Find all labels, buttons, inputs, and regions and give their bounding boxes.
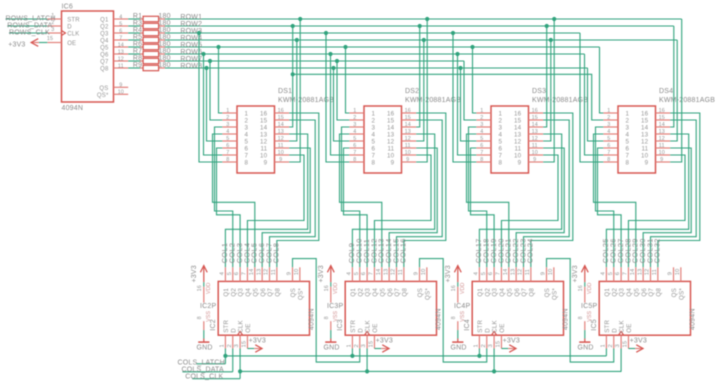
svg-text:16: 16 — [532, 108, 538, 114]
svg-text:13: 13 — [387, 131, 395, 138]
svg-text:1: 1 — [601, 344, 607, 347]
svg-text:6: 6 — [234, 272, 240, 275]
svg-text:DS4: DS4 — [659, 88, 673, 95]
svg-text:14: 14 — [260, 124, 268, 131]
svg-text:QS*: QS* — [97, 93, 109, 99]
svg-text:9: 9 — [414, 272, 420, 275]
svg-text:1: 1 — [626, 110, 630, 117]
svg-text:Q3: Q3 — [492, 288, 499, 297]
wire DS1 pin 15 to COL7 — [270, 120, 316, 267]
wire DS3 pin 13 to COL17 — [479, 134, 561, 267]
svg-text:OE: OE — [245, 323, 252, 332]
wire COLS_DATA to IC2 D — [182, 371, 232, 373]
wire +3V3 to IC3P VDD pin 16 — [330, 282, 332, 287]
wire COLS_LATCH bus — [196, 354, 606, 364]
svg-text:15: 15 — [514, 117, 522, 124]
svg-text:9: 9 — [406, 157, 409, 163]
wire DS4 pin 11 to COL30 — [643, 148, 691, 267]
svg-text:12: 12 — [260, 138, 268, 145]
svg-text:9: 9 — [660, 157, 663, 163]
svg-text:Q5: Q5 — [633, 288, 640, 297]
svg-text:4094N: 4094N — [62, 105, 84, 112]
resistor R4 180 — [128, 27, 170, 36]
svg-text:D: D — [484, 328, 491, 333]
wire ROW5 to DS3 pin 1 — [473, 47, 477, 113]
wire ROW8 to DS1 pin 5 — [207, 68, 223, 141]
svg-text:16: 16 — [641, 110, 649, 117]
svg-text:IC5P: IC5P — [581, 303, 597, 310]
svg-text:6: 6 — [119, 28, 122, 34]
svg-text:13: 13 — [641, 131, 649, 138]
wire IC3 QS to IC4 D cascade — [420, 259, 487, 363]
svg-text:13: 13 — [514, 131, 522, 138]
wire DS4 pin 16 to COL32 — [658, 113, 700, 267]
svg-text:Q4: Q4 — [100, 39, 109, 45]
wire IC2P VSS to GND — [203, 330, 205, 338]
svg-text:Q1: Q1 — [604, 288, 611, 297]
svg-text:COL24: COL24 — [526, 238, 535, 263]
svg-text:14: 14 — [659, 122, 665, 128]
svg-text:1: 1 — [372, 110, 376, 117]
svg-text:D: D — [611, 328, 618, 333]
svg-text:QS*: QS* — [551, 288, 558, 300]
svg-text:Q8: Q8 — [655, 288, 662, 297]
svg-text:Q2: Q2 — [357, 288, 364, 297]
svg-text:5: 5 — [226, 136, 229, 142]
wire DS3 pin 15 to COL23 — [524, 120, 570, 267]
svg-text:9: 9 — [391, 159, 395, 166]
svg-text:7: 7 — [499, 152, 503, 159]
svg-text:10: 10 — [421, 269, 427, 276]
svg-text:16: 16 — [260, 110, 268, 117]
svg-text:5: 5 — [245, 138, 249, 145]
svg-text:R6: R6 — [133, 41, 142, 48]
svg-text:ROW2: ROW2 — [180, 21, 202, 28]
wire ROW4 bus — [165, 39, 677, 41]
svg-text:IC6: IC6 — [62, 4, 74, 11]
wire DS3 pin 3 to COL18 — [469, 127, 487, 267]
svg-text:STR: STR — [67, 18, 80, 24]
svg-text:13: 13 — [659, 129, 665, 135]
svg-text:ROWS_DATA: ROWS_DATA — [7, 23, 52, 30]
power +3V3 symbol at IC3P VDD — [318, 265, 334, 282]
svg-text:15: 15 — [369, 341, 375, 348]
wire IC4 CLK to COLS_CLK — [493, 349, 495, 372]
ground GND at IC2P — [197, 339, 213, 352]
svg-text:14: 14 — [630, 268, 636, 275]
svg-text:6: 6 — [353, 143, 356, 149]
wire ROW3 to DS4 pin 8 — [580, 33, 603, 162]
wire COLS_CLK bus — [192, 369, 621, 378]
svg-text:3: 3 — [488, 344, 494, 347]
svg-text:1: 1 — [347, 344, 353, 347]
svg-text:OE: OE — [499, 323, 506, 332]
svg-text:5: 5 — [354, 272, 360, 275]
svg-text:Q5: Q5 — [379, 288, 386, 297]
svg-text:12: 12 — [118, 56, 124, 62]
svg-text:+3V3: +3V3 — [8, 41, 25, 48]
svg-text:OE: OE — [626, 323, 633, 332]
svg-text:11: 11 — [271, 269, 277, 275]
svg-text:11: 11 — [398, 269, 404, 275]
IC3 bottom pin stubs STR D CLK OE — [347, 335, 375, 348]
wire ROW2 wrap to DS4 pin 14 — [670, 26, 674, 127]
wire IC5P VSS to GND — [584, 330, 586, 338]
svg-text:R9: R9 — [133, 62, 142, 69]
wire ROWS_DATA to IC6 D — [7, 25, 47, 27]
svg-text:4: 4 — [499, 131, 503, 138]
svg-text:15: 15 — [387, 117, 395, 124]
svg-text:15: 15 — [496, 341, 502, 348]
IC2 top pin stubs Q1-Q8 QS QS* — [220, 267, 300, 281]
svg-text:12: 12 — [391, 269, 397, 276]
svg-text:D: D — [230, 328, 237, 333]
svg-text:6: 6 — [499, 145, 503, 152]
ground GND at IC4P — [451, 339, 467, 352]
wire ROW3 bus — [165, 32, 580, 34]
svg-text:2: 2 — [245, 117, 249, 124]
svg-text:4: 4 — [245, 131, 249, 138]
svg-text:Q6: Q6 — [641, 288, 648, 297]
svg-text:CLK: CLK — [238, 319, 245, 332]
svg-text:15: 15 — [260, 117, 268, 124]
wire ROWS_LATCH to IC6 STR — [6, 18, 48, 20]
svg-text:+3V3: +3V3 — [445, 265, 452, 282]
svg-text:DS3: DS3 — [532, 88, 546, 95]
svg-text:4: 4 — [119, 14, 122, 20]
svg-text:5: 5 — [372, 138, 376, 145]
svg-text:2: 2 — [226, 115, 229, 121]
wire IC2 QS to IC3 D cascade — [293, 259, 360, 363]
svg-text:5: 5 — [480, 136, 483, 142]
svg-text:11: 11 — [514, 145, 521, 152]
svg-text:Q8: Q8 — [274, 288, 281, 297]
power +3V3 symbol at IC2P VDD — [191, 265, 207, 282]
power +3V3 arrow at IC3 OE — [374, 337, 393, 352]
svg-text:15: 15 — [278, 115, 284, 121]
wire +3V3 to IC2P VDD pin 16 — [203, 282, 205, 287]
svg-text:Q1: Q1 — [223, 288, 230, 297]
wire ROW6 to DS2 pin 7 — [331, 54, 350, 155]
IC IC3 (4094N column driver) — [345, 281, 442, 335]
svg-text:2: 2 — [227, 344, 233, 347]
svg-text:13: 13 — [405, 129, 411, 135]
svg-text:Q4: Q4 — [626, 288, 633, 297]
svg-text:+3V3: +3V3 — [376, 337, 393, 344]
wire ROW6 to DS1 pin 7 — [204, 54, 223, 155]
wire ROW1 bus — [165, 18, 682, 20]
svg-text:+3V3: +3V3 — [630, 337, 647, 344]
svg-text:R8: R8 — [133, 55, 142, 62]
wire DS1 pin 6 to COL3 — [217, 148, 241, 267]
svg-text:4: 4 — [480, 129, 483, 135]
wire DS2 pin 10 to COL12 — [374, 155, 431, 267]
svg-text:14: 14 — [514, 124, 522, 131]
svg-text:14: 14 — [278, 122, 284, 128]
svg-text:D: D — [67, 25, 72, 31]
svg-text:ROW1: ROW1 — [180, 14, 202, 21]
svg-text:9: 9 — [264, 159, 268, 166]
svg-text:10: 10 — [387, 152, 395, 159]
svg-text:1: 1 — [226, 108, 229, 114]
svg-text:Q2: Q2 — [484, 288, 491, 297]
svg-text:4094N: 4094N — [436, 308, 443, 330]
wire IC5 CLK to COLS_CLK — [620, 349, 622, 372]
svg-text:Q7: Q7 — [648, 288, 655, 297]
svg-text:8: 8 — [197, 316, 203, 319]
svg-text:2: 2 — [353, 115, 356, 121]
svg-text:R7: R7 — [133, 48, 142, 55]
svg-text:5: 5 — [227, 272, 233, 275]
svg-text:5: 5 — [626, 138, 630, 145]
wire DS3 pin 4 to COL21 — [467, 134, 509, 267]
svg-text:Q6: Q6 — [100, 53, 109, 59]
svg-text:5: 5 — [607, 136, 610, 142]
svg-text:7: 7 — [242, 272, 248, 275]
svg-text:15: 15 — [623, 341, 629, 348]
svg-text:11: 11 — [118, 63, 124, 69]
wire DS2 pin 6 to COL11 — [344, 148, 368, 267]
svg-text:Q2: Q2 — [611, 288, 618, 297]
svg-text:R4: R4 — [133, 27, 142, 34]
wire DS3 pin 10 to COL20 — [501, 155, 558, 267]
svg-text:Q7: Q7 — [267, 288, 274, 297]
svg-text:9: 9 — [668, 272, 674, 275]
svg-text:GND: GND — [451, 345, 467, 352]
svg-text:12: 12 — [532, 136, 538, 142]
svg-text:14: 14 — [641, 124, 649, 131]
svg-text:8: 8 — [451, 316, 457, 319]
svg-text:OE: OE — [67, 41, 76, 47]
wire IC2 D to COLS_DATA — [232, 349, 234, 372]
power gate IC2P (VDD/VSS pins) — [197, 282, 217, 330]
svg-text:COL32: COL32 — [653, 238, 662, 263]
svg-text:4: 4 — [372, 131, 376, 138]
svg-text:16: 16 — [387, 110, 395, 117]
power gate IC4P (VDD/VSS pins) — [451, 282, 471, 330]
svg-text:STR: STR — [223, 319, 230, 332]
resistor R3 180 — [128, 20, 170, 29]
wire IC4 QS to IC5 D cascade — [547, 259, 614, 363]
resistor R8 180 — [128, 55, 170, 64]
svg-text:12: 12 — [514, 138, 522, 145]
wire IC5 STR to COLS_LATCH — [605, 349, 607, 356]
wire DS2 pin 16 to COL16 — [404, 113, 446, 267]
power +3V3 arrow at IC2 OE — [247, 337, 266, 352]
svg-text:4: 4 — [353, 129, 356, 135]
svg-text:6: 6 — [626, 145, 630, 152]
svg-text:COL16: COL16 — [399, 238, 408, 263]
IC5 top pin stubs Q1-Q8 QS QS* — [601, 267, 681, 281]
wire DS3 pin 11 to COL22 — [516, 148, 564, 267]
svg-text:COLS_DATA: COLS_DATA — [182, 366, 225, 373]
svg-text:15: 15 — [242, 341, 248, 348]
resistor R5 180 — [128, 34, 170, 43]
wire ROW7 to DS2 pin 2 — [337, 61, 349, 120]
svg-text:3: 3 — [615, 344, 621, 347]
svg-text:GND: GND — [197, 345, 213, 352]
svg-text:7: 7 — [353, 150, 356, 156]
svg-text:16: 16 — [278, 108, 284, 114]
svg-text:11: 11 — [525, 269, 531, 275]
wire DS1 pin 16 to COL8 — [277, 113, 319, 267]
svg-text:6: 6 — [245, 145, 249, 152]
junction dots on ROW bus taps — [197, 17, 556, 77]
svg-text:Q1: Q1 — [350, 288, 357, 297]
svg-text:R3: R3 — [133, 20, 142, 27]
power +3V3 arrow at IC4 OE — [501, 337, 520, 352]
wire DS2 pin 13 to COL9 — [352, 134, 434, 267]
wire DS4 pin 13 to COL25 — [606, 134, 688, 267]
IC6 right pin stubs Q1-Q8, QS, QS* — [114, 14, 129, 95]
IC2 bottom pin stubs STR D CLK OE — [220, 335, 248, 348]
svg-text:DS2: DS2 — [405, 88, 419, 95]
svg-text:16: 16 — [405, 108, 411, 114]
svg-text:R5: R5 — [133, 34, 142, 41]
IC IC5 (4094N column driver) — [599, 281, 696, 335]
wire DS4 pin 15 to COL31 — [651, 120, 697, 267]
svg-text:IC5: IC5 — [591, 319, 598, 331]
wire ROW7 bus — [165, 60, 464, 62]
svg-text:10: 10 — [532, 150, 538, 156]
svg-text:Q4: Q4 — [499, 288, 506, 297]
wire ROW4 to DS3 pin 12 — [543, 40, 551, 141]
svg-text:13: 13 — [260, 131, 268, 138]
svg-text:Q6: Q6 — [387, 288, 394, 297]
svg-text:7: 7 — [226, 150, 229, 156]
svg-text:12: 12 — [387, 138, 395, 145]
svg-text:1: 1 — [474, 344, 480, 347]
wire IC2 CLK to COLS_CLK — [239, 349, 241, 372]
wire ROW2 to DS2 pin 14 — [416, 26, 420, 127]
svg-text:7: 7 — [372, 152, 376, 159]
display DS4 KWM-20881AGB — [603, 88, 715, 173]
svg-text:10: 10 — [514, 152, 522, 159]
svg-text:QS: QS — [544, 288, 551, 297]
svg-text:9: 9 — [541, 272, 547, 275]
svg-text:+3V3: +3V3 — [318, 265, 325, 282]
svg-text:8: 8 — [480, 157, 483, 163]
svg-text:VDD: VDD — [333, 282, 339, 294]
svg-text:8: 8 — [226, 157, 229, 163]
svg-text:9: 9 — [287, 272, 293, 275]
svg-text:+3V3: +3V3 — [249, 337, 266, 344]
ground GND at IC3P — [324, 339, 340, 352]
svg-text:4: 4 — [626, 131, 630, 138]
wire ROW7 to DS3 pin 2 — [464, 61, 476, 120]
svg-text:15: 15 — [405, 115, 411, 121]
svg-text:10: 10 — [118, 90, 124, 96]
svg-text:7: 7 — [480, 150, 483, 156]
wire ROW4 to DS1 pin 12 — [289, 40, 297, 141]
wire ROW8 to DS3 pin 5 — [461, 68, 477, 141]
IC4 bottom pin stubs STR D CLK OE — [474, 335, 502, 348]
svg-text:6: 6 — [372, 145, 376, 152]
svg-text:R1: R1 — [133, 13, 142, 20]
display DS2 KWM-20881AGB — [349, 88, 461, 173]
wire ROW5 to DS4 pin 1 — [600, 47, 604, 113]
svg-text:6: 6 — [615, 272, 621, 275]
svg-text:7: 7 — [496, 272, 502, 275]
svg-text:2: 2 — [607, 115, 610, 121]
svg-text:5: 5 — [608, 272, 614, 275]
svg-text:14: 14 — [118, 42, 124, 48]
wire +3V3 to IC4P VDD pin 16 — [457, 282, 459, 287]
svg-text:IC4: IC4 — [464, 319, 471, 331]
wire DS4 pin 6 to COL27 — [598, 148, 622, 267]
svg-text:Q5: Q5 — [506, 288, 513, 297]
svg-text:10: 10 — [659, 150, 665, 156]
wire ROW3 to DS3 pin 8 — [453, 33, 476, 162]
wire ROW4 wrap to DS4 pin 12 — [670, 40, 677, 141]
svg-text:6: 6 — [480, 143, 483, 149]
svg-text:12: 12 — [278, 136, 284, 142]
svg-text:11: 11 — [659, 143, 665, 149]
svg-text:12: 12 — [405, 136, 411, 142]
IC5 bottom pin stubs STR D CLK OE — [601, 335, 629, 348]
svg-text:12: 12 — [518, 269, 524, 276]
wire ROW5 to DS1 pin 1 — [219, 47, 223, 113]
svg-text:4: 4 — [226, 129, 229, 135]
resistor R9 180 — [128, 62, 170, 71]
svg-text:9: 9 — [645, 159, 649, 166]
svg-text:14: 14 — [249, 268, 255, 275]
wire IC3 CLK to COLS_CLK — [366, 349, 368, 372]
svg-text:Q3: Q3 — [100, 32, 109, 38]
svg-text:8: 8 — [353, 157, 356, 163]
svg-text:8: 8 — [607, 157, 610, 163]
wire ROW1 wrap to DS4 pin 9 — [670, 19, 682, 162]
wire DS1 pin 3 to COL2 — [215, 127, 233, 267]
svg-text:4094N: 4094N — [563, 308, 570, 330]
svg-text:1: 1 — [480, 108, 483, 114]
svg-text:STR: STR — [477, 319, 484, 332]
wire DS2 pin 4 to COL13 — [340, 134, 382, 267]
wire ROW1 to DS3 pin 9 — [543, 19, 554, 162]
svg-text:8: 8 — [372, 159, 376, 166]
svg-text:9: 9 — [279, 157, 282, 163]
svg-text:6: 6 — [226, 143, 229, 149]
svg-text:1: 1 — [353, 108, 356, 114]
wire DS4 pin 3 to COL26 — [596, 127, 614, 267]
svg-text:10: 10 — [278, 150, 284, 156]
svg-text:OE: OE — [372, 323, 379, 332]
wire ROW8 to DS2 pin 5 — [334, 68, 350, 141]
svg-text:COLS_LATCH: COLS_LATCH — [178, 359, 225, 366]
svg-text:Q8: Q8 — [528, 288, 535, 297]
svg-text:Q4: Q4 — [372, 288, 379, 297]
svg-text:7: 7 — [607, 150, 610, 156]
ground GND at IC5P — [578, 339, 594, 352]
svg-text:2: 2 — [480, 115, 483, 121]
display DS1 KWM-20881AGB — [222, 88, 334, 173]
svg-text:5: 5 — [353, 136, 356, 142]
svg-text:IC4P: IC4P — [454, 303, 470, 310]
svg-text:13: 13 — [256, 269, 262, 276]
power +3V3 arrow at IC5 OE — [628, 337, 647, 352]
svg-text:15: 15 — [47, 36, 53, 42]
svg-text:Q5: Q5 — [252, 288, 259, 297]
wire DS3 pin 16 to COL24 — [531, 113, 573, 267]
svg-text:5: 5 — [499, 138, 503, 145]
wire ROW4 to DS2 pin 12 — [416, 40, 424, 141]
wire DS3 pin 6 to COL19 — [471, 148, 495, 267]
svg-text:Q6: Q6 — [260, 288, 267, 297]
svg-text:6: 6 — [488, 272, 494, 275]
svg-text:Q8: Q8 — [401, 288, 408, 297]
svg-text:Q1: Q1 — [477, 288, 484, 297]
svg-text:7: 7 — [119, 35, 122, 41]
